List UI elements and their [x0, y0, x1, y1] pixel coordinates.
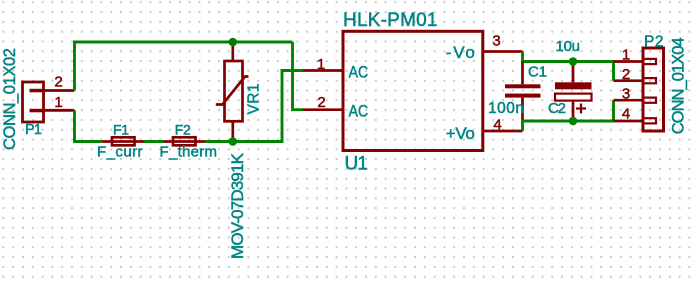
- svg-text:P2: P2: [644, 34, 664, 51]
- svg-text:10u: 10u: [556, 38, 581, 55]
- varistor VR1: [216, 42, 249, 142]
- svg-text:3: 3: [492, 33, 500, 50]
- svg-text:CONN_01X02: CONN_01X02: [1, 48, 19, 150]
- svg-text:F2: F2: [175, 122, 191, 138]
- junction C2 top: [569, 57, 578, 66]
- P2 pin 4 lead: [614, 120, 644, 123]
- U1 pin 1: [303, 69, 343, 72]
- svg-text:MOV-07D391K: MOV-07D391K: [228, 152, 247, 259]
- svg-text:+Vo: +Vo: [446, 124, 475, 143]
- svg-text:2: 2: [622, 66, 630, 83]
- svg-text:-Vo: -Vo: [446, 43, 475, 62]
- wire between F1 and F2: [144, 140, 163, 143]
- wire P1 pin2 up and along top to AC riser: [75, 42, 293, 91]
- svg-text:2: 2: [317, 94, 325, 111]
- connector P2 body: [643, 48, 664, 131]
- capacitor C2 polarized: [555, 62, 592, 122]
- P2 pin 1 lead: [614, 60, 644, 63]
- wire U1 pin4 stub to bottom rail: [521, 120, 524, 132]
- svg-text:F_therm: F_therm: [160, 144, 218, 161]
- junction at VR1 bottom: [229, 137, 238, 146]
- junction C2 bottom: [569, 117, 578, 126]
- svg-text:CONN_01X04: CONN_01X04: [670, 37, 688, 134]
- svg-text:4: 4: [622, 105, 630, 122]
- svg-text:HLK-PM01: HLK-PM01: [343, 10, 438, 31]
- U1 pin 3: [483, 50, 523, 53]
- converter module U1 box: [343, 31, 483, 150]
- wire P1 pin1 down to bottom rail and to F1: [75, 110, 103, 141]
- svg-text:1: 1: [317, 56, 325, 73]
- U1 pin 4: [483, 130, 523, 133]
- P1 pin 1 lead: [44, 109, 75, 112]
- C2 polarity plus sign: [576, 104, 586, 114]
- svg-text:AC: AC: [349, 102, 369, 121]
- wire bottom output rail toward P2: [523, 100, 614, 121]
- svg-text:F1: F1: [113, 122, 129, 138]
- svg-text:1: 1: [54, 94, 62, 111]
- svg-text:100n: 100n: [488, 100, 524, 117]
- svg-text:U1: U1: [345, 154, 369, 175]
- U1 pin 2: [303, 108, 343, 111]
- P2 pin 2 lead: [614, 79, 644, 82]
- P1 pin 2 lead: [44, 89, 75, 92]
- capacitor C1: [505, 62, 541, 120]
- svg-text:1: 1: [622, 47, 630, 64]
- P2 pin 3 lead: [614, 99, 644, 102]
- fuse F1: [102, 137, 144, 145]
- svg-text:4: 4: [493, 117, 501, 134]
- svg-text:AC: AC: [349, 62, 369, 81]
- wire U1 pin3 to top output rail toward P2: [523, 52, 614, 81]
- svg-text:VR1: VR1: [246, 84, 263, 115]
- fuse F2: [163, 137, 205, 145]
- svg-text:F_curr: F_curr: [97, 144, 143, 161]
- svg-text:2: 2: [54, 74, 62, 91]
- svg-text:C2: C2: [548, 100, 566, 117]
- svg-text:3: 3: [622, 86, 630, 103]
- junction at VR1 top: [229, 38, 238, 47]
- wire F2 along bottom then up to U1 pin 1: [205, 71, 303, 142]
- wire from top rail down to U1 pin 2: [293, 42, 304, 110]
- svg-text:P1: P1: [25, 122, 42, 138]
- connector P1 body: [23, 82, 44, 122]
- svg-text:C1: C1: [528, 64, 547, 81]
